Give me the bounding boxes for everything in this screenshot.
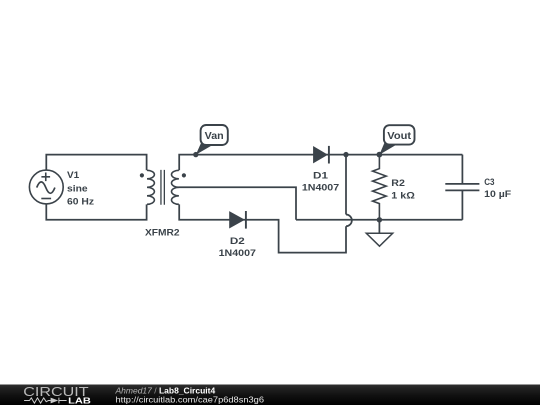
primary winding	[147, 170, 154, 204]
svg-text:1N4007: 1N4007	[302, 182, 339, 192]
ground	[366, 220, 392, 246]
svg-text:1N4007: 1N4007	[219, 248, 256, 258]
flag Vout	[379, 125, 414, 155]
svg-text:D1: D1	[313, 171, 328, 181]
svg-text:XFMR2: XFMR2	[145, 227, 180, 237]
wire top rail (secondary top to C3)	[179, 155, 462, 171]
svg-text:Vout: Vout	[387, 131, 412, 142]
wire hop over bottom rail	[346, 215, 352, 227]
voltage source V1	[29, 170, 63, 204]
label R2	[391, 178, 415, 200]
label V1 value	[67, 170, 94, 206]
footer bar	[0, 385, 540, 405]
svg-text:R2: R2	[391, 178, 405, 188]
node junction dot bottom ground	[377, 217, 382, 222]
resistor R2	[373, 155, 387, 220]
core	[161, 170, 164, 205]
primary polarity dot	[140, 173, 144, 177]
svg-text:Van: Van	[205, 131, 224, 142]
wire crossover vertical up to top rail	[345, 155, 347, 215]
capacitor C3	[445, 155, 479, 220]
secondary polarity dot	[182, 173, 186, 177]
secondary winding	[172, 170, 179, 204]
flag Van	[196, 125, 228, 155]
logo resistor-diode squiggle	[24, 398, 67, 404]
diode D2	[229, 211, 246, 229]
label D2	[219, 236, 256, 258]
transformer XFMR2	[140, 170, 186, 205]
svg-text:1 kΩ: 1 kΩ	[391, 190, 415, 200]
wire V1 bottom to primary bottom	[46, 204, 146, 220]
svg-text:LAB: LAB	[68, 396, 91, 405]
node Vout junction dot	[377, 152, 383, 158]
label C3	[484, 177, 511, 199]
label D1	[302, 171, 339, 193]
svg-text:http://circuitlab.com/cae7p6d8: http://circuitlab.com/cae7p6d8sn3g6	[116, 394, 265, 404]
diode D1	[313, 146, 329, 164]
wire V1 top to primary	[46, 155, 146, 171]
svg-text:sine: sine	[67, 183, 88, 193]
wire secondary bottom to D2 to crossover up	[179, 204, 346, 252]
svg-text:V1: V1	[67, 170, 79, 180]
wire bottom rail to C3	[296, 219, 462, 221]
node junction dot top crossover	[343, 152, 348, 157]
svg-text:C3: C3	[484, 177, 494, 187]
svg-text:60 Hz: 60 Hz	[67, 196, 94, 206]
svg-text:D2: D2	[230, 236, 245, 246]
svg-text:10 µF: 10 µF	[484, 189, 511, 199]
wire center tap down	[179, 187, 297, 220]
node Van dot	[193, 152, 198, 157]
